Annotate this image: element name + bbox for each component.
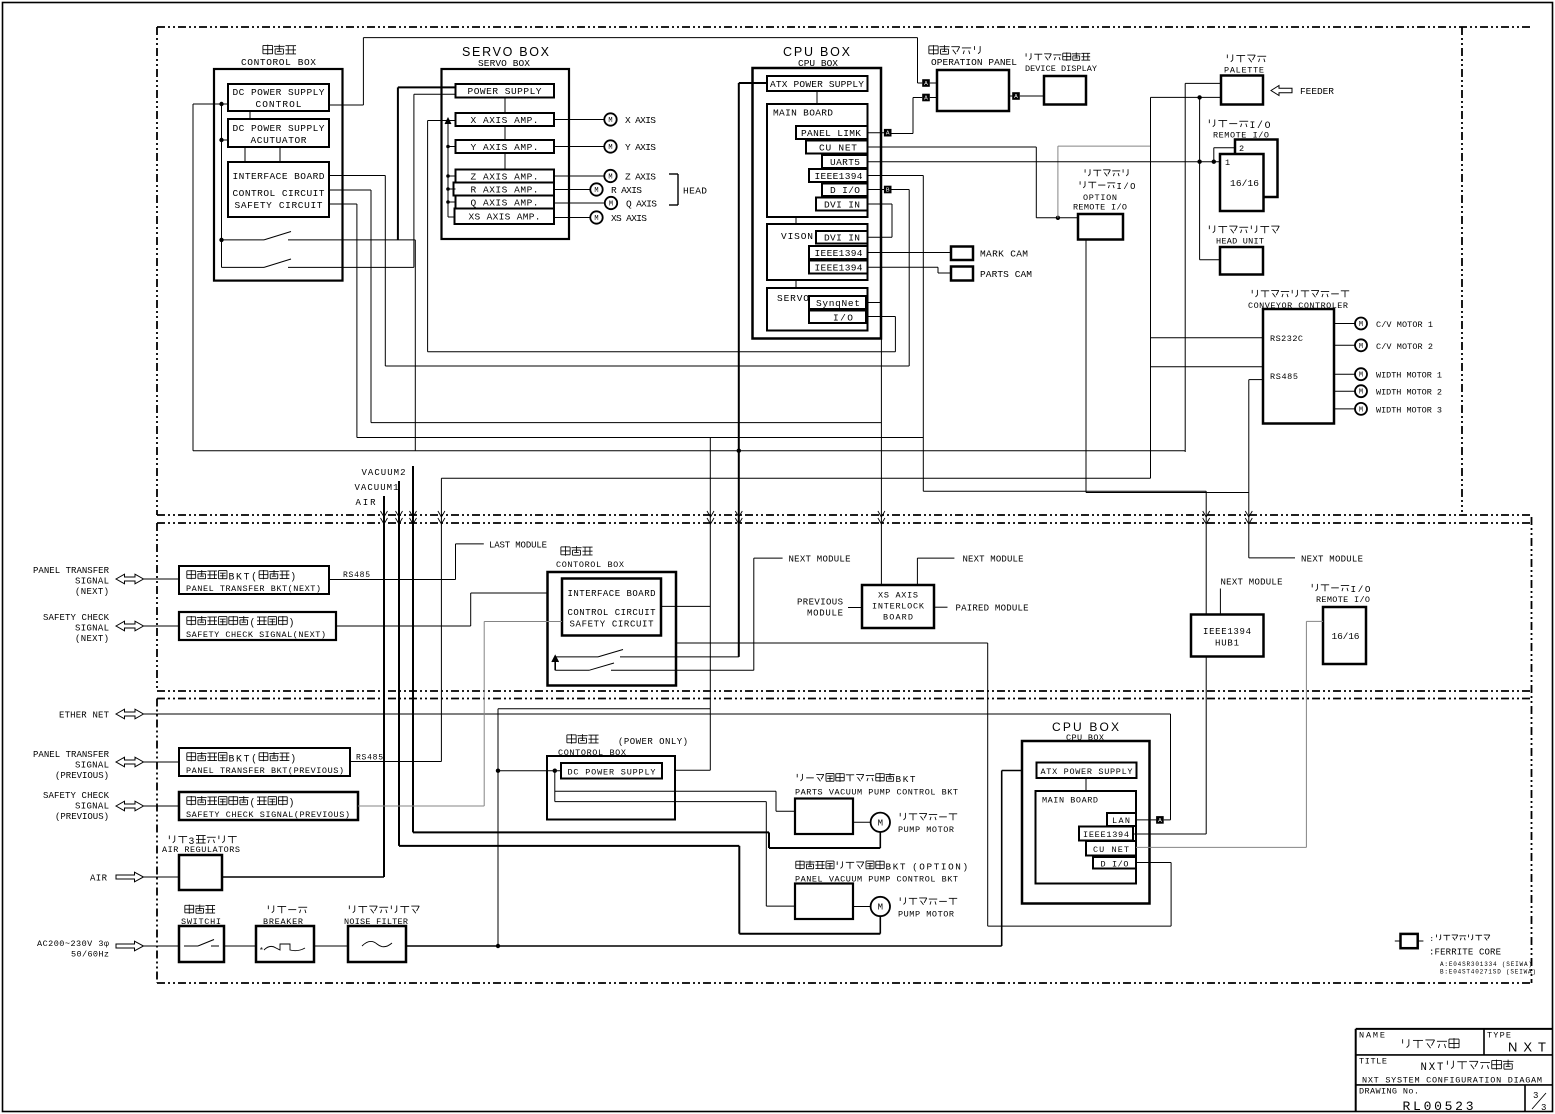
svg-text:NEXT MODULE: NEXT MODULE — [1221, 578, 1283, 588]
r2 switch bus + arrow — [554, 657, 556, 670]
svg-text:X AXIS: X AXIS — [625, 115, 656, 126]
cpu box r3 — [1022, 741, 1150, 904]
svg-text:IEEE1394: IEEE1394 — [815, 171, 863, 182]
svg-text:B: B — [896, 774, 902, 785]
svg-text:PARTS VACUUM PUMP CONTROL BKT: PARTS VACUUM PUMP CONTROL BKT — [795, 788, 958, 798]
wire bus to RS232C — [1151, 337, 1264, 339]
svg-text:Y AXIS AMP.: Y AXIS AMP. — [471, 142, 539, 153]
svg-text:M: M — [608, 174, 612, 182]
cv motor 1 — [1334, 323, 1355, 325]
RS485 chain west — [441, 477, 1150, 479]
svg-text:PALETTE: PALETTE — [1224, 66, 1264, 76]
svg-text:Z AXIS: Z AXIS — [625, 172, 656, 183]
svg-text:/: / — [1123, 182, 1128, 192]
svg-text:Y AXIS: Y AXIS — [625, 142, 656, 153]
svg-text:REMOTE I/O: REMOTE I/O — [1073, 203, 1127, 213]
svg-text:INTERLOCK: INTERLOCK — [872, 602, 925, 612]
svg-text:M: M — [1359, 406, 1363, 414]
svg-text:O: O — [1265, 120, 1271, 131]
r2 D I/O link to control box — [676, 642, 988, 644]
ATX power supply r3 — [1037, 763, 1137, 779]
panel vacuum pump control bkt box — [795, 884, 853, 920]
IEEE1394 r1 — [809, 169, 868, 182]
svg-text:SAFETY CHECK SIGNAL(PREVIOUS): SAFETY CHECK SIGNAL(PREVIOUS) — [186, 810, 350, 820]
remote IO unit 1 box — [1220, 154, 1264, 211]
svg-text:(POWER ONLY): (POWER ONLY) — [618, 737, 688, 747]
wire comms bus to palette (lower) — [1151, 96, 1222, 98]
svg-text:(: ( — [250, 618, 256, 629]
svg-text:SAFETY CIRCUIT: SAFETY CIRCUIT — [235, 200, 323, 211]
svg-text:(PREVIOUS): (PREVIOUS) — [55, 771, 109, 781]
control box (region1) — [214, 69, 343, 281]
head unit wire — [1200, 259, 1220, 261]
parts pump motor — [853, 821, 871, 823]
svg-text:NEXT MODULE: NEXT MODULE — [963, 555, 1024, 565]
wire: DC power control right riser to top line — [329, 104, 363, 106]
svg-text:B: B — [229, 572, 235, 583]
svg-text:ETHER NET: ETHER NET — [59, 711, 110, 721]
feeder arrow — [1271, 86, 1292, 96]
svg-text:SAFETY CHECK: SAFETY CHECK — [43, 791, 110, 801]
svg-text:PANEL TRANSFER BKT(NEXT): PANEL TRANSFER BKT(NEXT) — [186, 584, 321, 594]
CU NET r1 — [806, 141, 868, 154]
AC power chain wires — [224, 945, 256, 947]
svg-text:SIGNAL: SIGNAL — [75, 802, 109, 812]
svg-text:SERVO: SERVO — [777, 293, 809, 304]
gray link cu-net to comms bus — [1057, 146, 1059, 218]
svg-text:X: X — [1429, 1062, 1436, 1074]
IEEE1394 HUB1 box — [1191, 615, 1264, 657]
panel transfer bkt(previous) box — [179, 748, 350, 776]
svg-text:SERVO BOX: SERVO BOX — [478, 58, 530, 69]
svg-text:I: I — [1351, 584, 1357, 595]
svg-text:ATX POWER SUPPLY: ATX POWER SUPPLY — [1041, 767, 1133, 777]
pump power chains — [554, 771, 556, 802]
svg-text:N: N — [955, 862, 961, 873]
svg-text:K: K — [236, 754, 242, 765]
svg-text:WIDTH MOTOR 2: WIDTH MOTOR 2 — [1376, 388, 1442, 398]
svg-text:DC POWER SUPPLY: DC POWER SUPPLY — [233, 123, 325, 134]
r2 switch contact 1 — [555, 656, 598, 658]
svg-text:PANEL LIMK: PANEL LIMK — [801, 128, 861, 139]
switchi box + symbol — [179, 926, 224, 962]
device display box — [1044, 76, 1086, 105]
svg-text:M: M — [878, 903, 883, 913]
LAN box — [1107, 813, 1136, 826]
machine module 1 dash-dot boundary — [157, 26, 1532, 28]
main board r3 — [1036, 791, 1137, 884]
svg-text:XS AXIS AMP.: XS AXIS AMP. — [469, 212, 541, 223]
interface r1 wire 1 (RS485) — [329, 175, 385, 177]
svg-text:RL00523: RL00523 — [1403, 1099, 1474, 1114]
module link riser x=710.5 — [709, 438, 711, 771]
svg-text:C/V MOTOR 1: C/V MOTOR 1 — [1376, 320, 1433, 330]
svg-text:HEAD UNIT: HEAD UNIT — [1216, 237, 1264, 247]
conveyor controller labels — [1251, 290, 1253, 293]
air regulators box — [179, 855, 222, 890]
arrow — [116, 757, 144, 767]
XS axis interlock board — [862, 585, 934, 628]
svg-text:X AXIS AMP.: X AXIS AMP. — [471, 115, 539, 126]
remote IO r2 labels — [1311, 584, 1313, 587]
svg-text:AIR: AIR — [356, 498, 377, 508]
svg-text:SIGNAL: SIGNAL — [75, 761, 109, 771]
svg-text:O: O — [1130, 182, 1135, 192]
air regulators labels — [168, 835, 170, 839]
svg-text:C/V MOTOR 2: C/V MOTOR 2 — [1376, 342, 1433, 352]
svg-text:NEXT MODULE: NEXT MODULE — [1301, 555, 1363, 565]
svg-text:N: N — [1421, 1062, 1427, 1074]
svg-text:O: O — [919, 862, 925, 873]
switch contact 2 (region1 control box) — [222, 266, 265, 268]
svg-text:I: I — [1117, 182, 1122, 192]
svg-text:R AXIS: R AXIS — [611, 185, 642, 196]
svg-text:1: 1 — [1225, 158, 1230, 168]
svg-text:SIGNAL: SIGNAL — [75, 577, 109, 587]
svg-text:OPERATION PANEL: OPERATION PANEL — [931, 57, 1017, 68]
safety check signal(next) box — [179, 612, 336, 640]
svg-text:50/60Hz: 50/60Hz — [71, 950, 109, 960]
svg-text:I: I — [941, 862, 947, 873]
svg-text::FERRITE CORE: :FERRITE CORE — [1429, 948, 1501, 958]
svg-text:D I/O: D I/O — [830, 185, 860, 196]
gray wire safety-prev — [358, 805, 484, 807]
SERVO board — [767, 288, 868, 331]
svg-text:(NEXT): (NEXT) — [75, 587, 109, 597]
svg-text:ATX POWER SUPPLY: ATX POWER SUPPLY — [770, 79, 864, 90]
remote IO unit 2 box — [1235, 140, 1278, 198]
operation panel labels — [929, 45, 938, 47]
dc power wire in — [498, 770, 561, 772]
svg-text:16/16: 16/16 — [1332, 631, 1360, 642]
svg-text:BOARD: BOARD — [883, 613, 913, 623]
motor XS — [554, 217, 590, 219]
svg-text:(: ( — [251, 754, 257, 765]
dc power supply r3 — [561, 763, 662, 779]
svg-text:B:E04ST40271SD (SEIWA): B:E04ST40271SD (SEIWA) — [1440, 969, 1536, 976]
wire bkt-prev RS485 riser — [350, 761, 441, 763]
svg-text:(: ( — [912, 862, 918, 873]
svg-text:M: M — [609, 201, 613, 209]
svg-text:MAIN BOARD: MAIN BOARD — [773, 108, 833, 119]
option remote IO box — [1078, 214, 1123, 240]
UART5 wire to remote IO 1 — [868, 161, 1221, 163]
svg-text:SAFETY CIRCUIT: SAFETY CIRCUIT — [570, 620, 655, 630]
svg-text:M: M — [1359, 321, 1363, 329]
cpu internal connectors — [816, 91, 818, 104]
SynqNet — [809, 296, 866, 309]
svg-text:DVI IN: DVI IN — [824, 200, 860, 211]
wire: DC power control left to palette trunk — [193, 103, 228, 105]
branch to remote IO 2 — [1213, 148, 1215, 162]
svg-text:K: K — [236, 572, 242, 583]
wire bus to RS485 — [1151, 366, 1264, 368]
UART5 — [822, 155, 868, 168]
MAIN BOARD r1 — [767, 104, 868, 217]
svg-text:A: A — [1158, 818, 1162, 824]
svg-text:CONTROL: CONTROL — [256, 99, 302, 110]
svg-text:POWER SUPPLY: POWER SUPPLY — [468, 86, 542, 97]
svg-text:(: ( — [251, 572, 257, 583]
svg-text:T: T — [1437, 1062, 1444, 1074]
next module stub (right) — [1249, 557, 1295, 559]
interface board r2 — [562, 579, 661, 636]
svg-text:(PREVIOUS): (PREVIOUS) — [55, 812, 109, 822]
noise filter labels — [348, 905, 350, 909]
svg-text:/: / — [1358, 584, 1364, 595]
AC trunk to CPU3 ATX — [406, 945, 1002, 947]
motor Z — [554, 175, 604, 177]
svg-text:D I/O: D I/O — [1101, 860, 1129, 870]
remote IO 16/16 r2 box — [1323, 607, 1366, 664]
interface r1 wire 3 — [329, 203, 357, 205]
svg-text:ACUTUATOR: ACUTUATOR — [251, 135, 307, 146]
svg-text:R AXIS AMP.: R AXIS AMP. — [471, 185, 539, 196]
PANEL LIMK — [796, 126, 868, 139]
Y AXIS AMP — [456, 140, 555, 153]
internal bus wire control box r1 — [221, 104, 223, 267]
svg-text:LAST MODULE: LAST MODULE — [489, 541, 547, 551]
svg-text:VACUUM1: VACUUM1 — [355, 483, 399, 493]
motor Q — [554, 202, 605, 204]
IEEE r3 wire to hub riser — [1133, 833, 1206, 835]
svg-text:WIDTH MOTOR 3: WIDTH MOTOR 3 — [1376, 405, 1442, 415]
ATX POWER SUPPLY r1 — [767, 76, 868, 91]
svg-text:M: M — [878, 819, 883, 829]
option box chain down — [1085, 240, 1087, 493]
svg-text:SERVO BOX: SERVO BOX — [462, 45, 550, 59]
svg-text:AIR REGULATORS: AIR REGULATORS — [162, 845, 240, 855]
svg-text:T: T — [244, 572, 250, 583]
mark cam wire/box — [868, 252, 952, 254]
IEEE1394 vison 1 — [809, 246, 868, 259]
svg-text:RS232C: RS232C — [1270, 334, 1303, 344]
svg-text:INTERFACE BOARD: INTERFACE BOARD — [568, 589, 656, 599]
panel vacuum pump control bkt labels — [796, 860, 804, 862]
svg-text:FEEDER: FEEDER — [1300, 86, 1334, 97]
svg-text:A: A — [1014, 94, 1018, 100]
svg-text:M: M — [608, 117, 612, 125]
svg-text:T: T — [244, 754, 250, 765]
comms bus vertical x=1150.5 — [1150, 97, 1152, 478]
svg-text:PANEL TRANSFER: PANEL TRANSFER — [33, 566, 110, 576]
width motor 1 — [1334, 373, 1355, 375]
remote IO r1 labels — [1208, 119, 1210, 123]
svg-text:VACUUM2: VACUUM2 — [362, 468, 406, 478]
svg-text:CONTOROL BOX: CONTOROL BOX — [241, 57, 316, 68]
INTERFACE BOARD / CONTROL CIRCUIT / SAFETY CIRCUIT — [228, 162, 329, 217]
CU NET r1 wire to option remote IO — [868, 146, 1037, 148]
svg-text:PANEL TRANSFER: PANEL TRANSFER — [33, 750, 110, 760]
arrow — [116, 621, 144, 631]
svg-text::: : — [1430, 936, 1434, 944]
svg-text:B: B — [229, 754, 235, 765]
svg-text:NAME: NAME — [1359, 1031, 1385, 1041]
air wire to regulators — [222, 876, 384, 878]
svg-text:NEXT MODULE: NEXT MODULE — [789, 555, 851, 565]
svg-text:XS AXIS: XS AXIS — [878, 591, 918, 601]
svg-text:(NEXT): (NEXT) — [75, 634, 109, 644]
svg-text:OPTION: OPTION — [1083, 193, 1117, 203]
machine module 2 dash-dot boundary — [157, 522, 1532, 524]
D I/O r3 wire — [1136, 862, 1171, 864]
svg-text:Z AXIS AMP.: Z AXIS AMP. — [471, 172, 539, 183]
ferrite A right of op panel + wire to device display — [1009, 95, 1012, 97]
X AXIS AMP — [456, 113, 555, 126]
svg-text:*: * — [259, 947, 264, 956]
svg-text:M: M — [1359, 343, 1363, 351]
svg-text:T: T — [910, 774, 916, 785]
CU NET r3 gray wire — [1136, 846, 1306, 848]
svg-text:O: O — [1365, 584, 1371, 595]
D I/O r1 — [822, 184, 868, 197]
next module stub (center) — [916, 558, 918, 585]
conveyor RS485 down to next module — [1249, 379, 1263, 381]
svg-text:): ) — [289, 798, 295, 809]
svg-text:INTERFACE BOARD: INTERFACE BOARD — [233, 171, 325, 182]
svg-text:REMOTE I/O: REMOTE I/O — [1316, 595, 1370, 605]
palette feed from trunk line — [1185, 82, 1221, 84]
power link from module riser — [498, 708, 710, 710]
breaker labels — [267, 905, 269, 909]
control box r3 labels — [567, 734, 576, 736]
connector wires between supply boxes — [249, 111, 251, 119]
ferrite core legend — [1395, 940, 1401, 942]
width motor 2 — [1334, 390, 1355, 392]
panel transfer bkt(next) box — [179, 566, 329, 594]
palette box — [1221, 76, 1263, 105]
ferrite A op-panel lower — [922, 94, 930, 102]
head unit labels — [1208, 225, 1210, 229]
I/O servo — [809, 311, 866, 324]
breaker box + symbol — [256, 926, 314, 962]
title block frame — [1356, 1028, 1553, 1030]
svg-text:XS AXIS: XS AXIS — [611, 213, 647, 224]
svg-text:): ) — [290, 754, 296, 765]
D I/O r3 box — [1093, 857, 1136, 869]
atx-main connector — [1085, 778, 1087, 791]
Q AXIS AMP — [456, 196, 555, 209]
parts cam wire/box — [868, 266, 939, 268]
svg-text:): ) — [290, 572, 296, 583]
wire safety-next to interface r2 — [336, 625, 471, 627]
IEEE1394 vison 2 — [809, 261, 868, 274]
palette/trunk long wire y=450.7 — [193, 450, 1185, 452]
CU NET r3 box — [1086, 841, 1136, 856]
svg-text:A: A — [924, 81, 928, 87]
svg-text:B: B — [886, 862, 892, 873]
conveyor controller box — [1263, 309, 1334, 424]
boundary crossing arrows region1/2 — [381, 511, 388, 517]
svg-text:PAIRED MODULE: PAIRED MODULE — [956, 604, 1029, 614]
svg-text:16/16: 16/16 — [1230, 178, 1259, 189]
wire bkt-next to last module — [329, 579, 456, 581]
svg-text:SIGNAL: SIGNAL — [75, 624, 109, 634]
svg-text:K: K — [893, 862, 899, 873]
svg-text:2: 2 — [1239, 144, 1244, 154]
top long wire to operation panel — [363, 37, 917, 39]
svg-text:PUMP MOTOR: PUMP MOTOR — [898, 825, 954, 835]
next module stub (left) — [753, 558, 755, 670]
svg-text:): ) — [963, 862, 969, 873]
palette labels — [1226, 54, 1228, 58]
r2 switch contact 2 — [555, 669, 589, 671]
svg-text:A:E04SR301334 (SEIWA): A:E04SR301334 (SEIWA) — [1440, 961, 1532, 968]
switch2 riser to servo power supply — [413, 94, 415, 267]
servo box — [442, 69, 570, 239]
DC POWER SUPPLY CONTROL — [228, 84, 329, 111]
arrow — [116, 801, 144, 811]
I/O servo power loop — [866, 316, 895, 318]
svg-text:PANEL TRANSFER BKT(PREVIOUS): PANEL TRANSFER BKT(PREVIOUS) — [186, 766, 344, 776]
head unit box — [1220, 247, 1263, 275]
control box r3 — [547, 756, 675, 820]
svg-text:CU NET: CU NET — [819, 143, 857, 154]
paired module stub + label — [934, 606, 948, 608]
interface r1 wire 2 — [329, 189, 371, 191]
svg-text:M: M — [1359, 372, 1363, 380]
svg-text:MARK CAM: MARK CAM — [980, 249, 1028, 260]
motor Y — [554, 146, 604, 148]
panel pump motor — [853, 906, 871, 908]
synqnet riser to XS interlock — [866, 302, 881, 304]
DC POWER SUPPLY ACUTUATOR — [228, 119, 329, 147]
svg-text:Q AXIS: Q AXIS — [626, 199, 657, 210]
parts vacuum pump control bkt labels — [796, 774, 798, 777]
palette head-unit riser — [1199, 97, 1201, 259]
svg-text:P: P — [927, 862, 933, 873]
DVI IN r1 — [816, 198, 868, 211]
arrow — [116, 574, 144, 584]
vacuum2 to parts pump motor — [413, 831, 769, 833]
ATX r1 wire to power trunk — [739, 82, 767, 84]
svg-text:RS485: RS485 — [1270, 372, 1298, 382]
svg-text:I/O: I/O — [833, 313, 853, 324]
HEAD bracket — [669, 173, 678, 175]
svg-text:DC POWER SUPPLY: DC POWER SUPPLY — [568, 768, 656, 778]
motor R — [554, 189, 590, 191]
svg-text:IEEE1394: IEEE1394 — [1083, 830, 1129, 840]
svg-text:T: T — [934, 862, 940, 873]
hub1 down link — [1205, 657, 1207, 835]
svg-text:MODULE: MODULE — [807, 609, 843, 619]
svg-text:M: M — [594, 215, 598, 223]
svg-text:/: / — [1257, 120, 1263, 131]
machine module 3 dash-dot boundary — [157, 698, 1532, 700]
svg-text:A: A — [924, 96, 928, 102]
operation panel box — [937, 70, 1009, 111]
svg-text:(: ( — [250, 798, 256, 809]
IEEE1394 r3 box — [1079, 827, 1133, 841]
svg-text:Q AXIS AMP.: Q AXIS AMP. — [471, 198, 539, 209]
Z AXIS AMP — [456, 170, 555, 183]
panel limk wire + ferrite A — [868, 132, 885, 134]
svg-text:PARTS CAM: PARTS CAM — [980, 269, 1032, 280]
svg-text:CONTOROL BOX: CONTOROL BOX — [556, 560, 624, 570]
svg-text:CONTROL CIRCUIT: CONTROL CIRCUIT — [568, 608, 657, 618]
svg-text:LAN: LAN — [1112, 816, 1130, 826]
svg-text:DRAWING No.: DRAWING No. — [1359, 1087, 1419, 1097]
svg-text:DVI IN: DVI IN — [824, 233, 860, 244]
svg-text:UART5: UART5 — [830, 157, 860, 168]
LAN ferrite + ethernet riser — [1136, 819, 1156, 821]
DVI-DVI loop — [868, 203, 893, 205]
svg-text:M: M — [594, 187, 598, 195]
servo internal connectors — [504, 98, 506, 114]
control box r2 — [548, 572, 677, 686]
noise filter box + symbol — [348, 926, 406, 962]
svg-text:SAFETY CHECK: SAFETY CHECK — [43, 613, 110, 623]
